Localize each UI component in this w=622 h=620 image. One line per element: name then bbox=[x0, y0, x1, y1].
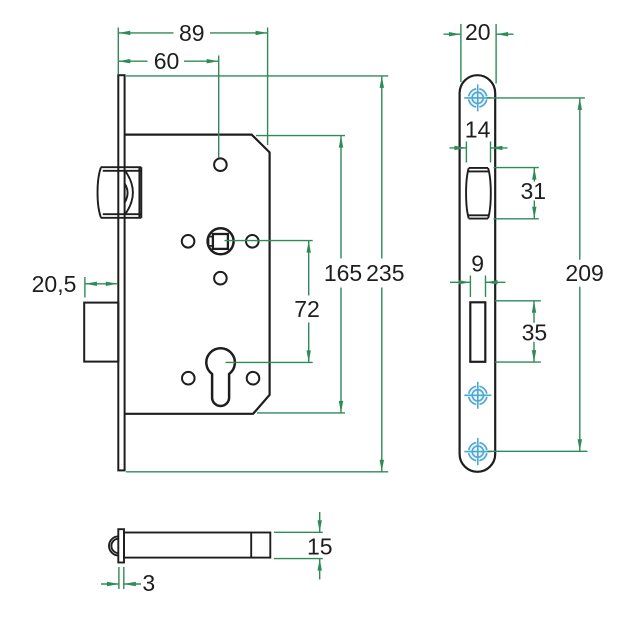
left hole of cylinder row bbox=[182, 372, 195, 385]
dimension 20,5 extension line bbox=[84, 277, 86, 298]
svg-text:31: 31 bbox=[521, 178, 547, 204]
svg-text:20,5: 20,5 bbox=[32, 271, 77, 297]
svg-text:89: 89 bbox=[179, 20, 205, 46]
dimension 20 extension lines bbox=[460, 24, 462, 82]
arrowheads 15 bbox=[318, 520, 322, 532]
arrowheads 60 bbox=[118, 59, 130, 63]
euro profile cylinder keyhole bbox=[206, 348, 235, 406]
screw hole symbol bottom bbox=[464, 438, 491, 465]
right hole of cylinder row bbox=[247, 372, 260, 385]
svg-text:20: 20 bbox=[465, 19, 491, 45]
latch tip arcs (side view) bbox=[109, 536, 119, 555]
svg-text:3: 3 bbox=[142, 570, 155, 596]
arrowheads 235 bbox=[380, 76, 384, 88]
body top extension line (165) bbox=[256, 135, 345, 137]
spindle follower circle bbox=[208, 228, 234, 254]
dimension 20,5 line bbox=[85, 283, 118, 285]
faceplate outline (rounded ends) bbox=[460, 75, 496, 472]
cylinder centre extension line (72) bbox=[226, 361, 313, 363]
right hole of spindle row bbox=[246, 235, 259, 248]
svg-text:60: 60 bbox=[154, 48, 180, 74]
arrowheads 20,5 bbox=[85, 282, 97, 286]
dimension 89 extension line right bbox=[267, 28, 269, 146]
bar bottom extension line (15) bbox=[274, 558, 323, 560]
dimension 3 line (outside arrows) bbox=[101, 583, 141, 585]
arrowheads 31 bbox=[532, 168, 536, 180]
screw hole symbol top bbox=[464, 84, 491, 111]
dimension 60 line bbox=[118, 60, 218, 62]
arrowheads 35 bbox=[532, 301, 536, 313]
arrowheads 9 bbox=[458, 280, 470, 284]
dimension 165 line bbox=[340, 136, 342, 413]
latch top extension line (31) bbox=[494, 167, 539, 169]
latch bolt (left view) bbox=[98, 167, 142, 218]
hole below spindle bbox=[214, 272, 227, 285]
slot bottom extension line (35) bbox=[495, 361, 541, 363]
svg-text:209: 209 bbox=[565, 260, 603, 286]
deadbolt (left view) bbox=[84, 303, 118, 362]
svg-text:72: 72 bbox=[294, 296, 320, 322]
dimension 209 line bbox=[579, 98, 581, 451]
svg-text:165: 165 bbox=[324, 260, 362, 286]
faceplate bottom extension line (235) bbox=[126, 471, 388, 473]
dimension 60 extension line right bbox=[218, 56, 220, 158]
arrowheads 14 bbox=[454, 146, 466, 150]
faceplate end plate (side view) bbox=[118, 529, 124, 562]
lock body outline with chamfered right corners bbox=[125, 135, 270, 414]
top fixing hole bbox=[214, 158, 227, 171]
dimension 9 line (outside arrows) bbox=[450, 281, 506, 283]
dimension 31 line bbox=[533, 168, 535, 219]
arrowheads 3 bbox=[107, 582, 119, 586]
deadbolt slot (front view) bbox=[470, 302, 485, 362]
screw hole symbol middle bbox=[464, 382, 491, 409]
bottom screw extension line (209) bbox=[488, 450, 588, 452]
svg-text:9: 9 bbox=[471, 251, 484, 277]
faceplate (left view, thin vertical strip) bbox=[118, 75, 124, 470]
body bottom extension line (165) bbox=[257, 412, 345, 414]
svg-text:14: 14 bbox=[465, 117, 491, 143]
dimension 3 extension lines bbox=[118, 567, 120, 589]
faceplate top extension line (235) bbox=[126, 75, 388, 77]
lock case side bar bbox=[124, 533, 270, 558]
bar top extension line (15) bbox=[274, 531, 323, 533]
dimension 15 line (outside arrows) bbox=[319, 512, 321, 580]
dimension 235 line bbox=[381, 76, 383, 472]
dimension 14 line (outside arrows) bbox=[450, 147, 508, 149]
latch bottom extension line (31) bbox=[494, 218, 539, 220]
top screw extension line (209) bbox=[487, 97, 585, 99]
slot top extension line (35) bbox=[495, 300, 541, 302]
arrowheads 165 bbox=[339, 136, 343, 148]
dimension 20 line (outside arrows) bbox=[444, 33, 514, 35]
spindle centre extension line (72) bbox=[225, 240, 313, 242]
latch bolt (front view) bbox=[466, 168, 491, 219]
left hole of spindle row bbox=[182, 235, 195, 248]
arrowheads 89 bbox=[118, 31, 130, 35]
dimension 72 line bbox=[308, 241, 310, 363]
arrowheads 209 bbox=[578, 98, 582, 110]
svg-text:235: 235 bbox=[366, 260, 404, 286]
bar end separation line bbox=[250, 533, 252, 558]
svg-text:15: 15 bbox=[307, 534, 333, 560]
spindle square hole bbox=[213, 234, 228, 249]
svg-text:35: 35 bbox=[522, 320, 548, 346]
dimension 9 extension lines bbox=[469, 276, 471, 298]
spindle follower notch bbox=[209, 237, 214, 246]
dimension 89 extension line left bbox=[117, 28, 119, 75]
dimension 35 line bbox=[533, 301, 535, 362]
arrowheads 20 bbox=[449, 32, 461, 36]
dimension 89 line bbox=[118, 32, 267, 34]
dimension 14 extension lines bbox=[465, 142, 467, 163]
arrowheads 72 bbox=[307, 241, 311, 253]
